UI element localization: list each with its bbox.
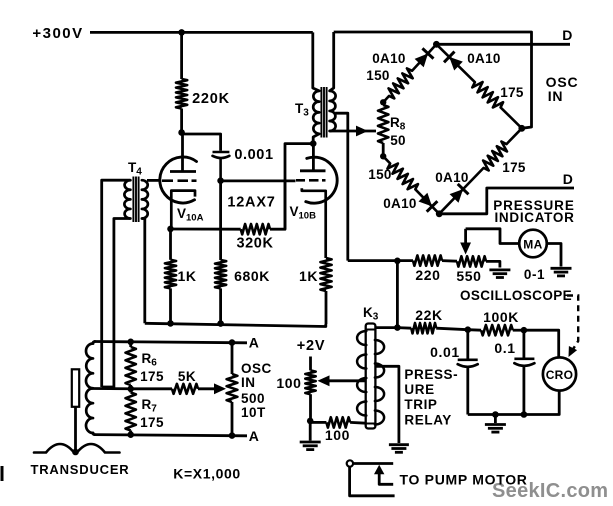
- wire 320K to V10B grid node: [270, 182, 285, 229]
- svg-text:0-1: 0-1: [524, 267, 545, 282]
- junction dot V10A cathode node: [167, 226, 174, 233]
- wire T3 secondary bottom to R8 wiper: [330, 130, 376, 133]
- svg-text:680K: 680K: [234, 268, 270, 284]
- relay contact circle: [347, 460, 353, 466]
- svg-text:0A10: 0A10: [467, 51, 500, 66]
- resistor 220: [413, 255, 442, 265]
- junction dot bridge bottom vertex: [436, 210, 443, 217]
- wire T4 primary top lead: [102, 180, 131, 387]
- bridge edge top-right with resistor 175: [436, 44, 521, 128]
- junction dot V10B grid node: [217, 177, 224, 184]
- wire 220K top lead: [180, 32, 183, 79]
- svg-text:100: 100: [276, 375, 301, 391]
- svg-text:IN: IN: [548, 88, 564, 104]
- svg-text:D: D: [562, 27, 573, 43]
- junction dot rail2/R7: [127, 431, 134, 438]
- junction dot 22K/0.01 node: [465, 326, 472, 333]
- diode 0A10 bottom-right: [450, 189, 464, 203]
- svg-text:100: 100: [325, 427, 350, 443]
- wire T4 secondary bottom lead: [142, 219, 145, 324]
- wire T3 tap down to 220 node: [346, 131, 349, 261]
- T4 core: [132, 177, 134, 223]
- wire +2V lead: [309, 357, 312, 371]
- wire T4 primary jog at transducer tap: [102, 386, 114, 389]
- svg-text:175: 175: [140, 415, 164, 430]
- wire 220 to 550: [442, 259, 457, 262]
- relay K3 body: [366, 324, 376, 429]
- svg-text:100K: 100K: [483, 309, 519, 325]
- svg-text:RELAY: RELAY: [404, 412, 452, 427]
- wire 100K node to CRO: [524, 330, 559, 357]
- V10B cathode: [302, 188, 326, 258]
- wire relay right tap to ground: [375, 366, 399, 443]
- wire V10B plate to 320K feedback: [285, 144, 313, 230]
- svg-text:220K: 220K: [192, 91, 230, 107]
- svg-text:320K: 320K: [236, 236, 273, 252]
- wire crystal to transducer line: [74, 407, 77, 452]
- contact fixed line: [353, 462, 393, 465]
- V10B grid (dashed): [296, 179, 305, 182]
- junction dot transducer: [72, 449, 79, 456]
- ground after meter: [551, 267, 572, 270]
- svg-text:D: D: [563, 171, 574, 187]
- transducer wavy line: [34, 444, 120, 453]
- resistor 1K left: [169, 229, 172, 260]
- junction dot relay/22K node: [394, 324, 401, 331]
- bridge edge top-left with resistor 150: [383, 44, 436, 102]
- wire 550 to ground: [486, 261, 500, 267]
- resistor 1K right: [320, 258, 331, 291]
- svg-text:0.01: 0.01: [430, 344, 460, 360]
- junction dot rail/0.1: [521, 411, 528, 418]
- svg-text:OSC: OSC: [241, 361, 272, 376]
- wire plate node to coupling cap: [182, 134, 221, 151]
- bridge edge bottom-left with resistor 150: [383, 156, 439, 214]
- edge artifact mark: [1, 466, 4, 481]
- junction dot V10A plate node: [178, 129, 185, 136]
- T4 secondary winding: [142, 180, 148, 218]
- svg-text:5K: 5K: [178, 369, 196, 384]
- wire winding center tap: [91, 387, 131, 390]
- svg-text:175: 175: [140, 369, 164, 384]
- T3 core: [320, 87, 322, 138]
- oscilloscope CRO circle: [543, 357, 576, 390]
- junction dot rail/R6 top: [127, 339, 134, 346]
- svg-text:PRESS-: PRESS-: [404, 367, 458, 382]
- potentiometer 100 upper: [305, 370, 315, 394]
- svg-text:175: 175: [502, 160, 526, 175]
- svg-text:1K: 1K: [177, 268, 196, 284]
- junction dot bridge right vertex: [518, 125, 525, 132]
- resistor R6 175: [126, 347, 136, 385]
- junction dot R8 bottom: [380, 153, 386, 159]
- svg-text:550: 550: [456, 268, 481, 284]
- junction dot 100K/0.1 node: [521, 327, 528, 334]
- wire +300V to T3 primary: [313, 32, 319, 91]
- V10B plate: [312, 144, 315, 171]
- T3 secondary winding: [330, 91, 336, 131]
- T4 primary winding: [124, 180, 130, 218]
- meter MA: [519, 230, 547, 258]
- wire 220 node down to relay node: [396, 261, 399, 328]
- T3 primary winding: [313, 91, 319, 134]
- capacitor 0.01: [466, 330, 469, 360]
- svg-text:175: 175: [500, 85, 524, 100]
- svg-text:0A10: 0A10: [372, 51, 405, 66]
- junction dot lower 100 node: [307, 418, 314, 425]
- bridge edge bottom-right with resistor 175: [439, 128, 522, 214]
- wire oscillator rail to bridge right vertex: [334, 32, 532, 128]
- svg-text:CRO: CRO: [546, 368, 574, 382]
- wire to 220 resistor: [348, 259, 413, 262]
- wire T4 secondary to V10A grid: [147, 179, 161, 182]
- svg-text:10T: 10T: [241, 405, 266, 420]
- resistor 320K: [241, 224, 270, 234]
- wire 100 pot to lower node: [309, 394, 312, 421]
- svg-text:0A10: 0A10: [383, 196, 416, 211]
- ground after 550: [489, 268, 510, 271]
- capacitor 0.1: [523, 330, 526, 358]
- resistor 22K: [397, 326, 411, 329]
- ground below 100 node: [309, 421, 312, 441]
- svg-text:A: A: [249, 335, 260, 351]
- wire +300V rail: [90, 31, 313, 34]
- contact moving arm arrow: [374, 465, 384, 475]
- junction dot bridge top vertex: [433, 41, 440, 48]
- arrowhead to R8 wiper: [356, 126, 368, 137]
- capacitor 0.001 coupling: [213, 151, 230, 154]
- wire T3 secondary tap bracket: [335, 113, 348, 131]
- V10A grid (dashed): [162, 179, 173, 182]
- wire 220K bottom lead: [180, 109, 183, 133]
- triode V10B envelope: [306, 157, 337, 203]
- junction dot rail/500 top: [229, 339, 236, 346]
- svg-text:0.001: 0.001: [234, 147, 273, 163]
- junction dot R8 top: [380, 99, 386, 105]
- transducer crystal: [72, 369, 79, 407]
- resistor 550 potentiometer: [457, 256, 486, 266]
- svg-text:0.1: 0.1: [494, 340, 515, 356]
- wire winding bottom to A rail: [93, 433, 95, 435]
- wire winding top to A rail: [93, 342, 95, 344]
- diode 0A10 top-right: [449, 57, 463, 71]
- ground CRO rail: [494, 415, 497, 424]
- diode 0A10 bottom-left: [419, 193, 433, 207]
- wire CRO bottom rail: [468, 391, 559, 415]
- svg-text:1K: 1K: [299, 268, 318, 284]
- wiper arrow 100 pot: [327, 379, 366, 382]
- resistor R7 175: [126, 393, 136, 431]
- V10A cathode: [171, 191, 195, 229]
- svg-text:MA: MA: [523, 238, 542, 252]
- svg-text:+2V: +2V: [297, 338, 326, 354]
- wire T3 secondary top lead: [330, 32, 334, 91]
- rail A upper: [94, 342, 247, 343]
- junction dot rail/ground: [492, 411, 499, 418]
- svg-text:URE: URE: [404, 382, 434, 397]
- transducer coupling winding: [86, 344, 93, 434]
- svg-text:TRANSDUCER: TRANSDUCER: [31, 462, 130, 477]
- wire relay top tap: [375, 326, 397, 329]
- rail A lower: [94, 435, 247, 436]
- diode 0A10 top-left: [415, 54, 428, 68]
- wiper arrow on 550: [464, 229, 467, 245]
- svg-text:OSCILLOSCOPE: OSCILLOSCOPE: [460, 288, 572, 303]
- svg-text:22K: 22K: [415, 307, 442, 323]
- junction dot 220/relay node: [394, 258, 401, 265]
- wire cathode ground rail: [145, 323, 326, 326]
- svg-text:INDICATOR: INDICATOR: [494, 210, 574, 225]
- wire V10A cathode rail to 320K: [171, 228, 241, 231]
- junction dot rail/1K: [167, 320, 174, 327]
- svg-text:220: 220: [415, 267, 440, 283]
- svg-text:TO PUMP MOTOR: TO PUMP MOTOR: [400, 471, 528, 487]
- wire wiper to meter: [466, 229, 519, 244]
- wire meter to ground: [547, 244, 561, 267]
- resistor 100 lower: [311, 421, 327, 424]
- svg-text:150: 150: [368, 167, 391, 182]
- relay K3 coil loops right: [375, 340, 384, 354]
- junction dot +300V/220K: [178, 29, 185, 36]
- junction dot V10B plate node: [310, 140, 317, 147]
- svg-text:500: 500: [241, 391, 265, 406]
- junction dot R6/R7 tap: [127, 386, 134, 393]
- wire V10B grid from coupling cap: [221, 179, 296, 182]
- svg-text:A: A: [249, 428, 260, 444]
- resistor 680K: [219, 181, 222, 260]
- potentiometer R8 50 bridge left arm: [378, 105, 388, 143]
- svg-text:50: 50: [390, 133, 406, 148]
- svg-text:12AX7: 12AX7: [227, 195, 275, 211]
- wire bridge bottom vertex to D output: [439, 188, 574, 214]
- triode V10A envelope: [160, 157, 197, 203]
- ground relay: [389, 443, 409, 446]
- svg-text:0A10: 0A10: [435, 170, 468, 185]
- relay K3 coil loops left: [357, 331, 366, 345]
- svg-text:IN: IN: [241, 375, 256, 390]
- junction dot rail2/500 bottom: [229, 432, 236, 439]
- wire T4 primary bottom lead: [114, 219, 130, 390]
- dashed pointer to CRO: [567, 296, 578, 351]
- V10A plate: [181, 133, 184, 172]
- potentiometer 500 10T: [231, 343, 234, 374]
- resistor 100K: [468, 328, 481, 331]
- svg-text:K=X1,000: K=X1,000: [173, 466, 240, 482]
- svg-text:TRIP: TRIP: [404, 397, 437, 412]
- svg-text:+300V: +300V: [32, 25, 83, 42]
- svg-text:150: 150: [366, 68, 389, 83]
- wire T3 primary to V10B plate: [313, 134, 319, 144]
- wire from contact circle: [350, 467, 395, 496]
- junction dot rail/680K: [217, 320, 224, 327]
- resistor 5K with wiper arrow: [131, 387, 172, 390]
- resistor 220K: [176, 79, 187, 109]
- wire bridge top vertex to D: [436, 43, 570, 46]
